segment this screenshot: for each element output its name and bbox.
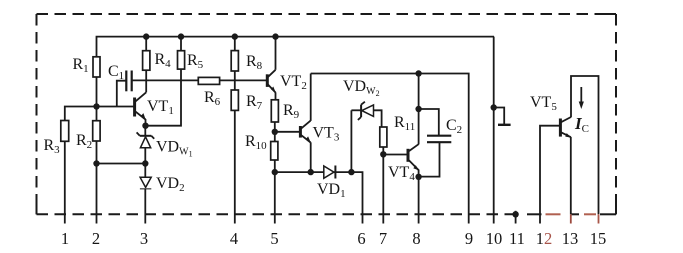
svg-text:7: 7 [379,229,387,248]
wire VT1 collector to R4 [145,70,147,92]
svg-text:VDW2: VDW2 [343,78,380,98]
svg-text:VD2: VD2 [156,175,185,194]
wire C1 left lead [117,81,127,107]
capacitor C2 [419,109,452,177]
svg-text:R9: R9 [283,102,300,121]
wire R3 to pin 1 [64,141,66,223]
wire VT4 collector up [418,74,420,145]
zener VDW1 [137,126,155,164]
resistor R3 [61,121,69,142]
pin 11 tick [515,211,517,224]
wire R2 bottom to VD junction [97,163,146,165]
resistor R1 [93,57,100,77]
wire C1 right to R6 to VT2 base [132,79,199,81]
resistor R8 [231,51,238,71]
wire VT5 collector loop [571,76,599,214]
wire R4 top [145,37,147,51]
svg-text:C1: C1 [108,63,124,82]
svg-text:9: 9 [465,229,473,248]
svg-text:R5: R5 [187,52,204,71]
dashed border bottom (black part) [37,213,517,215]
wire top rail right end to pin 10 [493,37,495,224]
resistor R11 [380,127,387,147]
pin number labels [61,229,606,248]
svg-text:13: 13 [562,229,579,248]
pin 15 red tick [598,214,600,223]
svg-text:2: 2 [92,229,100,248]
wire R11 bottom to dot, pin 7 [382,147,384,224]
dashed border right [615,14,617,214]
svg-text:VT2: VT2 [280,73,307,92]
svg-text:5: 5 [270,229,278,248]
wire R10 bottom to pin 5 [274,160,276,224]
svg-text:11: 11 [509,229,525,248]
wire VT2 collector to rail [275,37,277,70]
wire VT4 emitter to pin 8 [418,177,420,224]
svg-text:12: 12 [536,229,553,248]
svg-text:IC: IC [574,114,589,135]
transistor VT5 [560,117,571,138]
svg-text:R8: R8 [246,53,263,72]
wire pin 2 riser [96,164,98,224]
resistor R10 [271,142,278,161]
wire VT3 base wire [275,131,300,133]
capacitor C1 [126,71,131,92]
wire VD1 row [275,171,324,173]
diode VD2 [140,164,151,224]
wire VT1 base line [65,107,134,121]
svg-text:VDW1: VDW1 [156,139,193,159]
transistor VT1 [135,92,147,120]
wire R9 bottom [274,122,276,142]
wire VT3 collector up [310,74,312,121]
current arrow IC [579,87,584,109]
svg-text:C2: C2 [446,117,462,136]
wire R2 leads [96,107,98,121]
svg-text:3: 3 [140,229,148,248]
svg-text:8: 8 [412,229,420,248]
zener VDW2 [351,102,381,172]
svg-text:R4: R4 [155,51,172,70]
svg-text:6: 6 [357,229,365,248]
svg-text:10: 10 [486,229,503,248]
svg-text:VT1: VT1 [147,98,174,117]
wire R1 bottom to base line [96,77,98,107]
svg-text:R2: R2 [76,132,92,151]
svg-text:R3: R3 [44,137,61,156]
resistor R7 [231,90,238,110]
svg-text:R6: R6 [204,89,221,108]
transistor VT2 [267,70,276,93]
diode VD1 [324,166,352,179]
transistor VT4 [408,144,419,177]
svg-text:R10: R10 [245,133,267,152]
wire VT4 base wire [383,154,408,156]
dashed border top [37,13,617,15]
ground symbol near pin 10 [494,108,511,125]
resistor R6 [198,77,219,84]
svg-text:15: 15 [590,229,607,248]
wire VT5 emitter to pin 13 [570,137,572,214]
svg-text:4: 4 [230,229,238,248]
pin 13 red tick [570,214,572,223]
resistor R4 [143,51,150,70]
resistor R9 [271,100,278,122]
resistor R2 [93,121,100,141]
svg-text:R7: R7 [246,93,263,112]
dashed border left [36,14,38,214]
svg-text:VT4: VT4 [388,164,415,183]
dashed border corner solid joins [606,13,616,15]
svg-text:VT3: VT3 [313,125,340,144]
resistor R5 [178,51,185,69]
wire VT2 emitter to R9 [275,92,277,99]
svg-text:1: 1 [61,229,69,248]
wire VT1 emitter down [145,119,147,126]
wire R7 to pin 4 [234,110,236,223]
wire VT3 emitter down [310,142,312,172]
svg-text:R11: R11 [394,114,415,133]
wire R8-R7 [234,71,236,90]
transistor VT3 [300,121,311,143]
wire R5 leads [180,37,182,51]
svg-text:R1: R1 [73,56,89,75]
wire R8 top [234,37,236,51]
svg-text:VD1: VD1 [317,181,346,200]
dashed border bottom colored segments [527,213,616,215]
wire upper mid rail to pin9 corner [311,74,469,224]
top rail wire [97,37,495,57]
wire VD1 row right segment to pin 6 [351,172,362,223]
wire VT5 base to pin 12 [540,126,560,224]
svg-text:VT5: VT5 [530,94,557,113]
